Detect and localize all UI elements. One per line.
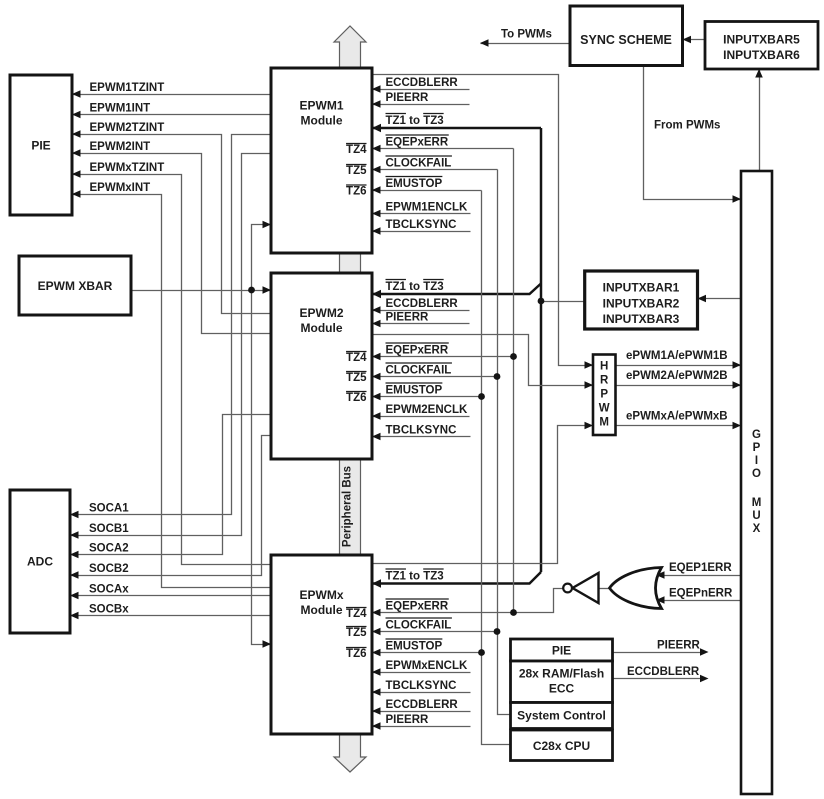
svg-text:EPWM1TZINT: EPWM1TZINT — [90, 82, 165, 94]
label ePWMxA/ePWMxB — [626, 411, 728, 423]
wire EPWM2TZINT from EPWM2 to PIE — [72, 130, 272, 313]
wire PIEERR stub into EPWMx — [372, 722, 471, 730]
svg-text:PIE: PIE — [552, 644, 571, 658]
svg-text:ECCDBLERR: ECCDBLERR — [627, 666, 700, 678]
wire To PWMs from SYNC SCHEME — [480, 39, 571, 47]
svg-text:ePWMxA/ePWMxB: ePWMxA/ePWMxB — [626, 411, 728, 423]
svg-text:PIEERR: PIEERR — [386, 92, 430, 104]
label TBCLKSYNC at EPWM2 — [386, 425, 457, 437]
wire EMUSTOP into EPWMx — [372, 649, 482, 657]
svg-text:EQEPxERR: EQEPxERR — [386, 345, 449, 357]
junction EMUSTOP at EPWM2 — [478, 393, 485, 400]
svg-text:EPWMxINT: EPWMxINT — [90, 182, 151, 194]
svg-text:SYNC SCHEME: SYNC SCHEME — [580, 33, 672, 47]
wire EPWMxINT from EPWMx to PIE — [72, 190, 272, 587]
block EPWM2 Module — [271, 273, 372, 459]
svg-text:P: P — [600, 389, 608, 401]
label EPWM1ENCLK — [386, 202, 468, 214]
label PIEERR at EPWMx — [386, 714, 430, 726]
wire HRPWM out ePWM2A/ePWM2B to GPIO MUX — [616, 381, 742, 389]
svg-text:TZ4: TZ4 — [346, 352, 367, 364]
svg-text:From PWMs: From PWMs — [654, 120, 720, 132]
gray bus arrow up (to PWM output pins) above EPWM1 — [334, 26, 366, 69]
svg-text:ePWM1A/ePWM1B: ePWM1A/ePWM1B — [626, 350, 728, 362]
pin TZ4 on EPWM1 — [346, 144, 367, 157]
svg-text:P: P — [753, 442, 761, 454]
svg-text:EPWM XBAR: EPWM XBAR — [38, 279, 113, 293]
svg-text:CLOCKFAIL: CLOCKFAIL — [386, 620, 452, 632]
svg-text:Module: Module — [301, 321, 343, 335]
svg-text:TZ5: TZ5 — [346, 627, 367, 639]
label SOCA2 — [89, 543, 129, 555]
svg-text:O: O — [752, 468, 761, 480]
svg-text:EPWMxTZINT: EPWMxTZINT — [90, 162, 165, 174]
wire GPIO MUX up to INPUTXBAR5-6 — [755, 69, 763, 172]
block 28x RAM/Flash ECC — [511, 661, 613, 703]
block PIE (bottom right) — [511, 639, 613, 661]
svg-text:ePWM2A/ePWM2B: ePWM2A/ePWM2B — [626, 370, 728, 382]
wire EQEPxERR into EPWM1 — [372, 145, 514, 153]
junction EMUSTOP at EPWMx — [478, 649, 485, 656]
svg-text:TZ6: TZ6 — [346, 186, 366, 198]
svg-text:X: X — [753, 523, 761, 535]
wire PIEERR stub into EPWM2 — [372, 320, 470, 328]
junction TZ bus / INPUTXBAR tap — [538, 298, 545, 305]
wire EMUSTOP into EPWM1 — [372, 186, 482, 194]
label TBCLKSYNC at EPWM1 — [386, 219, 457, 231]
svg-text:EMUSTOP: EMUSTOP — [386, 178, 443, 190]
wire EQEPnERR from GPIO MUX to OR gate — [656, 596, 742, 604]
junction CLOCKFAIL at EPWM2 — [494, 373, 501, 380]
wire SOCA2 from EPWM2 to ADC — [70, 415, 272, 559]
block EPWM XBAR — [19, 256, 131, 315]
wire EQEPxERR into EPWM2 — [372, 353, 514, 361]
label EPWM2INT — [90, 141, 151, 153]
wire TZ1-TZ3 trip bus vertical (thick) — [540, 128, 543, 572]
gray bus arrow down below EPWMx — [334, 733, 366, 772]
svg-text:W: W — [599, 403, 610, 415]
svg-text:ADC: ADC — [27, 555, 53, 569]
svg-text:INPUTXBAR3: INPUTXBAR3 — [603, 312, 680, 326]
label EPWM2TZINT — [90, 122, 165, 134]
wire EMUSTOP into EPWM2 — [372, 393, 482, 401]
svg-text:EPWM2ENCLK: EPWM2ENCLK — [386, 404, 468, 416]
svg-text:CLOCKFAIL: CLOCKFAIL — [386, 158, 452, 170]
svg-text:I: I — [755, 455, 758, 467]
label To PWMs — [501, 29, 552, 41]
svg-text:TZ1 to TZ3: TZ1 to TZ3 — [386, 281, 444, 293]
wire CLOCKFAIL vertical to System Control — [498, 170, 511, 715]
svg-text:TBCLKSYNC: TBCLKSYNC — [386, 425, 457, 437]
svg-text:SOCA1: SOCA1 — [89, 503, 129, 515]
svg-text:TZ1 to TZ3: TZ1 to TZ3 — [386, 115, 444, 127]
label TZ1 to TZ3 at EPWM1 — [386, 114, 444, 128]
wire TBCLKSYNC stub into EPWM1 — [372, 227, 471, 235]
label EMUSTOP at EPWM2 — [386, 383, 443, 397]
wire INPUTXBAR5-6 to SYNC SCHEME — [683, 36, 706, 44]
svg-text:EQEPxERR: EQEPxERR — [386, 137, 449, 149]
svg-text:TZ6: TZ6 — [346, 392, 366, 404]
label TZ1 to TZ3 at EPWMx — [386, 569, 444, 583]
label CLOCKFAIL at EPWM1 — [386, 156, 452, 170]
wire PIEERR out of PIE block — [613, 648, 709, 656]
label EQEPnERR — [669, 588, 733, 600]
block System Control — [511, 703, 613, 729]
svg-text:INPUTXBAR6: INPUTXBAR6 — [723, 48, 800, 62]
wire EQEPxERR vertical — [513, 149, 515, 613]
label ECCDBLERR at EPWM1 — [386, 77, 459, 89]
label PIEERR at EPWM2 — [386, 312, 430, 324]
wire EPWM XBAR branch down to EPWMx — [252, 291, 272, 648]
wire TZ1-TZ3 into EPWM2 (thick, with diagonal jog) — [372, 284, 541, 299]
svg-text:EPWM2: EPWM2 — [299, 306, 343, 320]
svg-text:SOCB2: SOCB2 — [89, 563, 129, 575]
svg-text:TZ1 to TZ3: TZ1 to TZ3 — [386, 571, 444, 583]
pin TZ5 on EPWMx — [346, 627, 367, 640]
svg-text:EPWMxENCLK: EPWMxENCLK — [386, 660, 468, 672]
svg-text:SOCA2: SOCA2 — [89, 543, 129, 555]
svg-text:PIE: PIE — [31, 139, 50, 153]
label ECCDBLERR at EPWM2 — [386, 298, 459, 310]
wire From PWMs: SYNC SCHEME to GPIO MUX — [644, 66, 742, 203]
svg-text:R: R — [600, 375, 609, 387]
pin TZ6 on EPWM2 — [346, 392, 366, 405]
wire TZ1-TZ3 into EPWMx (thick, with diagonal jog) — [372, 572, 541, 588]
label EPWMxTZINT — [90, 162, 165, 174]
label TZ1 to TZ3 at EPWM2 — [386, 280, 444, 294]
svg-text:Module: Module — [301, 603, 343, 617]
wire EPWMx sync out to HRPWM input 3 — [373, 422, 594, 564]
svg-text:Peripheral Bus: Peripheral Bus — [342, 466, 354, 547]
label ePWM1A/ePWM1B — [626, 350, 728, 362]
label EQEP1ERR — [669, 562, 732, 574]
label EMUSTOP at EPWM1 — [386, 177, 443, 191]
label ECCDBLERR at EPWMx — [386, 699, 459, 711]
wire OR gate output to inverter — [599, 588, 611, 590]
wire SOCAx from EPWMx to ADC — [70, 592, 272, 600]
svg-text:CLOCKFAIL: CLOCKFAIL — [386, 365, 452, 377]
wire EPWM1TZINT from EPWM1 to PIE — [72, 90, 272, 98]
label SOCB2 — [89, 563, 129, 575]
svg-text:ECCDBLERR: ECCDBLERR — [386, 298, 459, 310]
svg-text:EMUSTOP: EMUSTOP — [386, 641, 443, 653]
wire CLOCKFAIL into EPWM2 — [372, 373, 498, 381]
wire CLOCKFAIL into EPWMx — [372, 628, 498, 636]
svg-text:M: M — [752, 497, 762, 509]
inverter (bubble output to EQEPxERR) — [563, 573, 598, 603]
wire EPWMxTZINT from EPWMx to PIE — [72, 170, 272, 564]
svg-text:G: G — [752, 429, 761, 441]
svg-text:EPWM1ENCLK: EPWM1ENCLK — [386, 202, 468, 214]
OR gate (EQEP error combine, mirrored: inputs right, output left) — [610, 568, 662, 609]
block PIE (interrupt controller) — [10, 75, 72, 215]
svg-text:TBCLKSYNC: TBCLKSYNC — [386, 219, 457, 231]
svg-text:EPWM1INT: EPWM1INT — [90, 103, 151, 115]
wire EPWM1INT from EPWM1 to PIE — [72, 111, 272, 119]
label SOCB1 — [89, 523, 129, 535]
svg-text:To PWMs: To PWMs — [501, 29, 552, 41]
svg-text:PIEERR: PIEERR — [386, 312, 430, 324]
junction EPWM XBAR node — [248, 287, 255, 294]
pin TZ4 on EPWM2 — [346, 352, 367, 365]
label Peripheral Bus (rotated) — [342, 466, 354, 547]
wire SOCA1 from EPWM1 to ADC — [70, 135, 272, 519]
gray peripheral-bus band between EPWM2 and EPWMx — [340, 457, 361, 557]
block INPUTXBAR5 INPUTXBAR6 — [705, 22, 818, 70]
wire HRPWM out ePWM1A/ePWM1B to GPIO MUX — [616, 361, 742, 369]
pin TZ6 on EPWM1 — [346, 185, 366, 198]
label ECCDBLERR output — [627, 666, 700, 678]
svg-text:SOCB1: SOCB1 — [89, 523, 129, 535]
label EPWMxENCLK — [386, 660, 468, 672]
wire ECCDBLERR out of ECC block — [613, 675, 709, 683]
svg-text:SOCAx: SOCAx — [89, 584, 129, 596]
svg-text:System Control: System Control — [517, 709, 606, 723]
label EPWM1INT — [90, 103, 151, 115]
label PIEERR at EPWM1 — [386, 92, 430, 104]
svg-text:INPUTXBAR5: INPUTXBAR5 — [723, 33, 800, 47]
wire EPWMxENCLK stub — [372, 668, 471, 676]
label ePWM2A/ePWM2B — [626, 370, 728, 382]
wire CLOCKFAIL into EPWM1 — [372, 166, 498, 174]
label EPWMxINT — [90, 182, 151, 194]
junction EQEPxERR at EPWMx — [510, 609, 517, 616]
wire ECCDBLERR stub into EPWM1 — [372, 85, 470, 93]
svg-text:EQEP1ERR: EQEP1ERR — [669, 562, 732, 574]
svg-text:INPUTXBAR2: INPUTXBAR2 — [603, 296, 680, 310]
wire ECCDBLERR stub into EPWM2 — [372, 306, 470, 314]
wire tap from TZ1-TZ3 bus to INPUTXBAR1-3 — [542, 301, 585, 303]
block HRPWM — [593, 355, 616, 436]
wire EPWM2INT from EPWM2 to PIE — [72, 149, 272, 333]
wire ECCDBLERR stub into EPWMx — [372, 707, 471, 715]
label CLOCKFAIL at EPWMx — [386, 618, 452, 632]
wire EPWM2ENCLK stub — [372, 412, 470, 420]
svg-text:28x RAM/Flash: 28x RAM/Flash — [519, 667, 604, 681]
svg-text:EQEPnERR: EQEPnERR — [669, 588, 733, 600]
svg-text:SOCBx: SOCBx — [89, 604, 129, 616]
wire EPWM1ENCLK stub — [372, 210, 471, 218]
svg-text:U: U — [752, 510, 760, 522]
svg-text:M: M — [599, 417, 609, 429]
junction CLOCKFAIL at EPWMx — [494, 628, 501, 635]
wire EQEPxERR into EPWMx from inverter — [372, 589, 564, 617]
pin TZ5 on EPWM1 — [346, 165, 367, 178]
label EPWM1TZINT — [90, 82, 165, 94]
svg-text:H: H — [600, 361, 608, 373]
label SOCBx — [89, 604, 129, 616]
gray peripheral-bus connector between EPWM1 and EPWM2 — [340, 251, 361, 275]
svg-text:C28x CPU: C28x CPU — [533, 739, 590, 753]
svg-text:TZ5: TZ5 — [346, 372, 367, 384]
svg-text:TZ6: TZ6 — [346, 648, 366, 660]
wire EMUSTOP vertical to C28x CPU — [482, 191, 511, 745]
label CLOCKFAIL at EPWM2 — [386, 363, 452, 377]
svg-text:PIEERR: PIEERR — [386, 714, 430, 726]
svg-text:Module: Module — [301, 114, 343, 128]
label EMUSTOP at EPWMx — [386, 639, 443, 653]
wire TBCLKSYNC stub into EPWM2 — [372, 433, 471, 441]
wire PIEERR stub into EPWM1 — [372, 100, 470, 108]
block C28x CPU — [511, 730, 613, 761]
label SOCA1 — [89, 503, 129, 515]
svg-text:ECCDBLERR: ECCDBLERR — [386, 699, 459, 711]
wire TZ1-TZ3 into EPWM1 (thick) — [372, 124, 541, 132]
label SOCAx — [89, 584, 129, 596]
pin TZ4 on EPWMx — [346, 608, 367, 621]
wire EPWM XBAR branch up to EPWM1 — [252, 221, 272, 291]
wire EPWM XBAR to EPWM2 — [132, 286, 272, 294]
wire EQEP1ERR from GPIO MUX to OR gate — [656, 571, 742, 579]
wire GPIO MUX to INPUTXBAR1-3 — [698, 295, 742, 303]
block GPIO MUX — [741, 171, 772, 794]
wire SOCB1 from EPWM1 to ADC — [70, 154, 272, 539]
svg-text:EPWMx: EPWMx — [299, 588, 343, 602]
block SYNC SCHEME — [570, 6, 683, 66]
svg-text:EQEPxERR: EQEPxERR — [386, 601, 449, 613]
label From PWMs — [654, 120, 720, 132]
block EPWM1 Module — [271, 68, 372, 253]
svg-text:EPWM2TZINT: EPWM2TZINT — [90, 122, 165, 134]
wire SOCB2 from EPWM2 to ADC — [70, 436, 272, 579]
svg-text:ECC: ECC — [549, 682, 575, 696]
junction EQEPxERR at EPWM2 — [510, 353, 517, 360]
label EQEPxERR at EPWMx — [386, 599, 449, 613]
block ADC — [10, 490, 70, 633]
svg-text:TBCLKSYNC: TBCLKSYNC — [386, 680, 457, 692]
svg-text:EPWM2INT: EPWM2INT — [90, 141, 151, 153]
label EQEPxERR at EPWM1 — [386, 135, 449, 149]
svg-text:ECCDBLERR: ECCDBLERR — [386, 77, 459, 89]
block EPWMx Module — [271, 555, 372, 734]
svg-text:PIEERR: PIEERR — [657, 640, 701, 652]
svg-text:INPUTXBAR1: INPUTXBAR1 — [603, 280, 680, 294]
label TBCLKSYNC at EPWMx — [386, 680, 457, 692]
label EQEPxERR at EPWM2 — [386, 343, 449, 357]
wire TBCLKSYNC stub into EPWMx — [372, 688, 471, 696]
label EPWM2ENCLK — [386, 404, 468, 416]
wire EPWM2 sync out to HRPWM input 2 — [373, 335, 594, 389]
pin TZ6 on EPWMx — [346, 648, 366, 661]
svg-text:TZ4: TZ4 — [346, 144, 367, 156]
svg-text:EMUSTOP: EMUSTOP — [386, 385, 443, 397]
wire HRPWM out ePWMxA/ePWMxB to GPIO MUX — [616, 422, 742, 430]
svg-text:TZ4: TZ4 — [346, 608, 367, 620]
pin TZ5 on EPWM2 — [346, 372, 367, 385]
svg-text:TZ5: TZ5 — [346, 165, 367, 177]
block INPUTXBAR1 INPUTXBAR2 INPUTXBAR3 — [585, 271, 698, 329]
label PIEERR output — [657, 640, 701, 652]
svg-text:EPWM1: EPWM1 — [299, 99, 343, 113]
wire SOCBx from EPWMx to ADC — [70, 612, 272, 620]
wire EPWM1 sync out to HRPWM input 1 — [373, 75, 594, 369]
